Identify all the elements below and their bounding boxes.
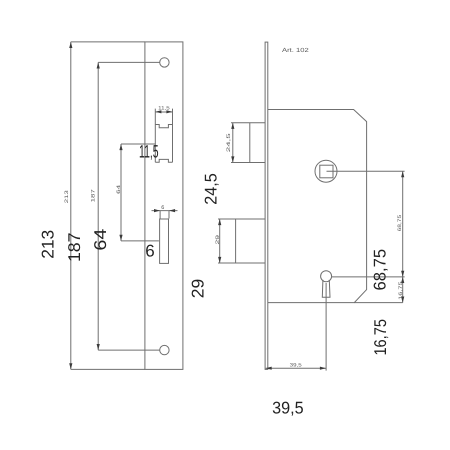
faceplate bottom extension line [71, 368, 145, 370]
follower circle [315, 160, 337, 182]
svg-text:64: 64 [91, 229, 110, 251]
faceplate front view outline [145, 42, 183, 370]
svg-text:213: 213 [38, 230, 57, 259]
arrow 187 bottom [97, 344, 100, 350]
svg-text:6: 6 [145, 241, 154, 260]
arrow 24,5 top [231, 123, 234, 129]
dim 29 line [219, 219, 221, 263]
dim 6 line [152, 210, 178, 212]
deadbolt pocket top line [218, 218, 265, 220]
dim 213 line [70, 42, 72, 370]
svg-text:213: 213 [64, 190, 70, 203]
arrow 11,5 right [166, 110, 172, 113]
dim 11,5 extension ticks [155, 109, 172, 112]
arrow 16,75 top [401, 277, 404, 283]
svg-text:24,5: 24,5 [226, 133, 232, 152]
follower square [320, 165, 333, 178]
top screw hole [160, 58, 169, 67]
arrow 68,75 top [401, 171, 404, 177]
dim 24,5 line [232, 123, 234, 163]
svg-text:11,5: 11,5 [139, 141, 159, 161]
latch pocket bottom line [231, 162, 265, 164]
arrow 6 left [154, 209, 160, 212]
svg-text:187: 187 [91, 189, 97, 203]
dim 39,5 line [266, 367, 326, 369]
faceplate edge view strip [265, 42, 268, 369]
keyhole leader [332, 276, 405, 278]
dim 68,75 16,75 line [402, 171, 404, 302]
deadbolt head edge [235, 219, 237, 263]
svg-text:29: 29 [189, 279, 208, 299]
bottom screw hole [160, 345, 169, 354]
keyhole slot [322, 280, 330, 297]
svg-text:16,75: 16,75 [371, 319, 390, 356]
arrow 68,75 bottom [401, 271, 404, 277]
svg-text:6: 6 [161, 205, 164, 211]
svg-text:Art. 102: Art. 102 [282, 47, 310, 54]
arrow 39,5 right [320, 367, 326, 370]
dim 64 top leader [121, 143, 155, 145]
svg-text:68,75: 68,75 [397, 215, 403, 232]
dim 64 bottom leader [121, 240, 159, 242]
arrow 11,5 left [155, 110, 161, 113]
lock case outline [268, 110, 367, 303]
arrow 213 bottom [69, 363, 72, 369]
svg-text:39,5: 39,5 [272, 398, 304, 417]
case bottom extension to dim line [354, 302, 402, 304]
latch bolt head edge [249, 123, 251, 163]
dim 187 top leader [98, 61, 160, 63]
arrow 16,75 bottom [401, 297, 404, 303]
latch cutout bottom stepped edge [155, 159, 172, 162]
svg-text:68,75: 68,75 [370, 249, 389, 291]
dim 187 line [97, 62, 99, 350]
arrow 213 top [69, 42, 72, 48]
dim 64 line [120, 144, 122, 241]
svg-text:11,5: 11,5 [158, 105, 170, 111]
arrow 6 right [169, 209, 175, 212]
dim 187 bottom leader [98, 349, 160, 351]
deadbolt slot [160, 219, 169, 263]
svg-text:16,75: 16,75 [398, 281, 404, 300]
svg-text:187: 187 [65, 233, 84, 262]
arrow 64 top [119, 144, 122, 150]
arrow 187 top [97, 62, 100, 68]
faceplate top extension line [71, 41, 145, 43]
deadbolt pocket bottom line [218, 262, 265, 264]
svg-text:39,5: 39,5 [290, 363, 302, 369]
svg-text:64: 64 [116, 185, 122, 194]
arrow 29 bottom [218, 257, 221, 263]
dim 6 extension ticks [160, 211, 169, 219]
latch cutout outline [155, 112, 172, 162]
keyhole circle [321, 271, 332, 282]
latch cutout middle stepped line [155, 125, 172, 128]
svg-text:29: 29 [215, 235, 221, 245]
svg-text:24,5: 24,5 [201, 173, 220, 205]
arrow 24,5 bottom [231, 156, 234, 162]
follower leader [327, 170, 405, 172]
arrow 64 bottom [119, 235, 122, 241]
arrow 29 top [218, 219, 221, 225]
latch pocket top line [231, 122, 265, 124]
arrow 39,5 left [266, 367, 272, 370]
keyhole centerline extension [325, 283, 327, 371]
